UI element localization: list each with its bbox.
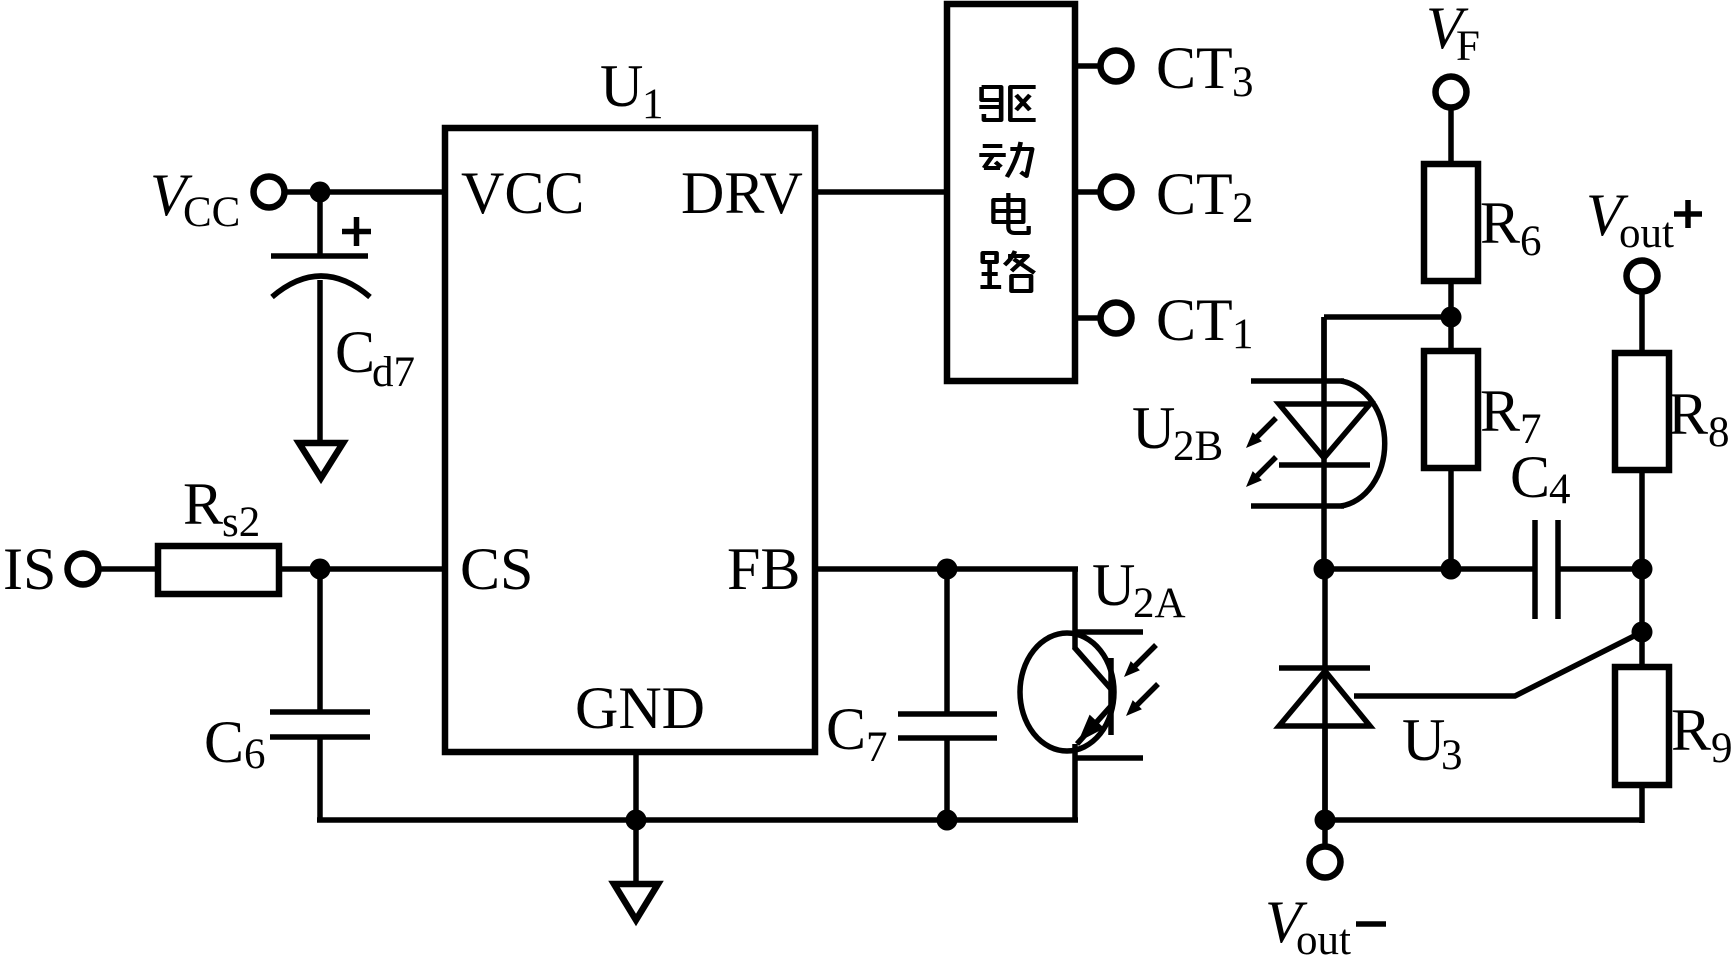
svg-text:CS: CS	[460, 536, 533, 602]
wire stub to CT2	[1075, 189, 1100, 195]
node junction U2B at rail	[1314, 559, 1335, 580]
wire R7 to rail	[1448, 468, 1454, 569]
node junction R7 at rail	[1441, 559, 1462, 580]
svg-text:C: C	[335, 319, 375, 385]
node IS terminal	[3, 536, 99, 602]
capacitor C4	[1510, 444, 1571, 619]
svg-text:R: R	[1480, 378, 1520, 444]
wire CS node down to C6	[317, 569, 323, 712]
wire feedback rail left	[1324, 566, 1535, 572]
wire C7 top	[944, 569, 950, 714]
IC U1 controller box with pin labels	[445, 53, 815, 752]
wire VCC node down to Cd7	[317, 192, 323, 256]
wire to Vout- terminal	[1322, 820, 1328, 846]
node junction at FB/C7	[937, 559, 958, 580]
capacitor C6	[204, 709, 370, 778]
wire DRV to drive circuit	[815, 189, 947, 195]
svg-text:s2: s2	[222, 499, 260, 546]
svg-text:C: C	[204, 709, 244, 775]
svg-text:7: 7	[866, 724, 888, 771]
svg-text:IS: IS	[3, 536, 56, 602]
wire junction left to U2B	[1324, 317, 1451, 381]
wire U1 GND pin down	[633, 752, 639, 884]
svg-text:R: R	[183, 471, 223, 537]
wire bottom rail right	[1322, 785, 1642, 823]
node junction at Vout-	[1315, 810, 1336, 831]
ground arrow at GND	[614, 884, 658, 920]
node junction rail at R8 line	[1632, 559, 1653, 580]
resistor R8	[1615, 353, 1730, 470]
wire stub to CT3	[1075, 63, 1100, 69]
node junction R6/R7/LED	[1441, 307, 1462, 328]
svg-text:F: F	[1456, 23, 1480, 70]
svg-text:CT: CT	[1156, 35, 1233, 101]
svg-text:U: U	[1402, 707, 1445, 773]
node junction C7 at rail	[937, 810, 958, 831]
capacitor C7	[826, 696, 997, 771]
svg-text:3: 3	[1232, 59, 1254, 106]
wire VCC terminal to U1 VCC pin	[285, 189, 445, 195]
svg-text:2: 2	[1232, 185, 1254, 232]
resistor R9	[1615, 667, 1733, 785]
node CT3 terminal	[1101, 35, 1254, 106]
svg-text:CT: CT	[1156, 161, 1233, 227]
node CT2 terminal	[1101, 161, 1254, 232]
node VCC terminal	[150, 162, 285, 236]
svg-text:3: 3	[1441, 732, 1463, 779]
transistor U2A photo-transistor	[1020, 552, 1186, 820]
svg-text:2A: 2A	[1133, 580, 1186, 627]
wire C4 right to R8 line	[1558, 566, 1642, 572]
svg-text:8: 8	[1708, 409, 1730, 456]
wire FB to U2A collector	[815, 566, 1078, 572]
light arrow into U2A (lower)	[1126, 684, 1158, 716]
wire VF to R6	[1448, 108, 1454, 164]
diode U2B photo-LED	[1132, 317, 1385, 569]
resistor R7	[1424, 351, 1542, 468]
wire Cd7 to arrow	[317, 280, 323, 443]
svg-text:R: R	[1671, 697, 1711, 763]
wire stub to CT1	[1075, 315, 1100, 321]
svg-text:U: U	[600, 53, 643, 119]
svg-text:out: out	[1296, 917, 1351, 964]
wire C6 to bottom rail	[317, 737, 323, 820]
svg-text:R: R	[1668, 381, 1708, 447]
svg-text:CT: CT	[1156, 287, 1233, 353]
svg-text:GND: GND	[575, 675, 705, 741]
svg-text:U: U	[1132, 395, 1175, 461]
node junction U3 ref takeoff	[1632, 622, 1653, 643]
node VF terminal	[1426, 0, 1480, 108]
svg-text:1: 1	[642, 81, 664, 128]
light arrow out of U2B (upper)	[1246, 418, 1276, 448]
node Vout+ terminal	[1586, 182, 1702, 292]
svg-text:4: 4	[1549, 466, 1571, 513]
ground arrow below Cd7	[299, 443, 343, 478]
wire bottom rail left	[317, 817, 1078, 823]
svg-text:9: 9	[1711, 725, 1733, 772]
svg-text:FB: FB	[727, 536, 800, 602]
svg-text:out: out	[1619, 210, 1674, 257]
shunt regulator U3	[1279, 569, 1463, 820]
svg-text:C: C	[1510, 444, 1550, 510]
svg-text:6: 6	[1520, 218, 1542, 265]
drive circuit box 驱动电路	[947, 4, 1075, 381]
light arrow into U2A (upper)	[1124, 645, 1156, 677]
capacitor Cd7 polarized	[271, 217, 415, 396]
svg-text:d7: d7	[372, 349, 415, 396]
svg-text:VCC: VCC	[461, 160, 584, 226]
svg-text:C: C	[826, 696, 866, 762]
wire IS to Rs2	[99, 566, 158, 572]
svg-text:1: 1	[1232, 311, 1254, 358]
node Vout- terminal	[1265, 847, 1386, 965]
wire Vout+ to R8	[1639, 292, 1645, 353]
node CT1 terminal	[1101, 287, 1254, 358]
resistor R6	[1424, 164, 1542, 281]
svg-text:6: 6	[244, 731, 266, 778]
wire R8 down to R9	[1639, 470, 1645, 667]
svg-text:CC: CC	[183, 189, 240, 236]
light arrow out of U2B (lower)	[1246, 457, 1276, 487]
svg-text:U: U	[1092, 552, 1135, 618]
wire R6 to R7	[1448, 281, 1454, 351]
node junction at VCC	[310, 182, 331, 203]
wire C7 bottom	[944, 738, 950, 820]
node junction at GND rail	[626, 810, 647, 831]
node junction at CS	[310, 559, 331, 580]
svg-text:R: R	[1480, 190, 1520, 256]
wire U3 reference line	[1354, 632, 1642, 696]
resistor Rs2	[158, 471, 279, 594]
wire Rs2 to U1 CS pin	[279, 566, 445, 572]
svg-text:DRV: DRV	[681, 160, 803, 226]
svg-text:2B: 2B	[1173, 423, 1223, 470]
